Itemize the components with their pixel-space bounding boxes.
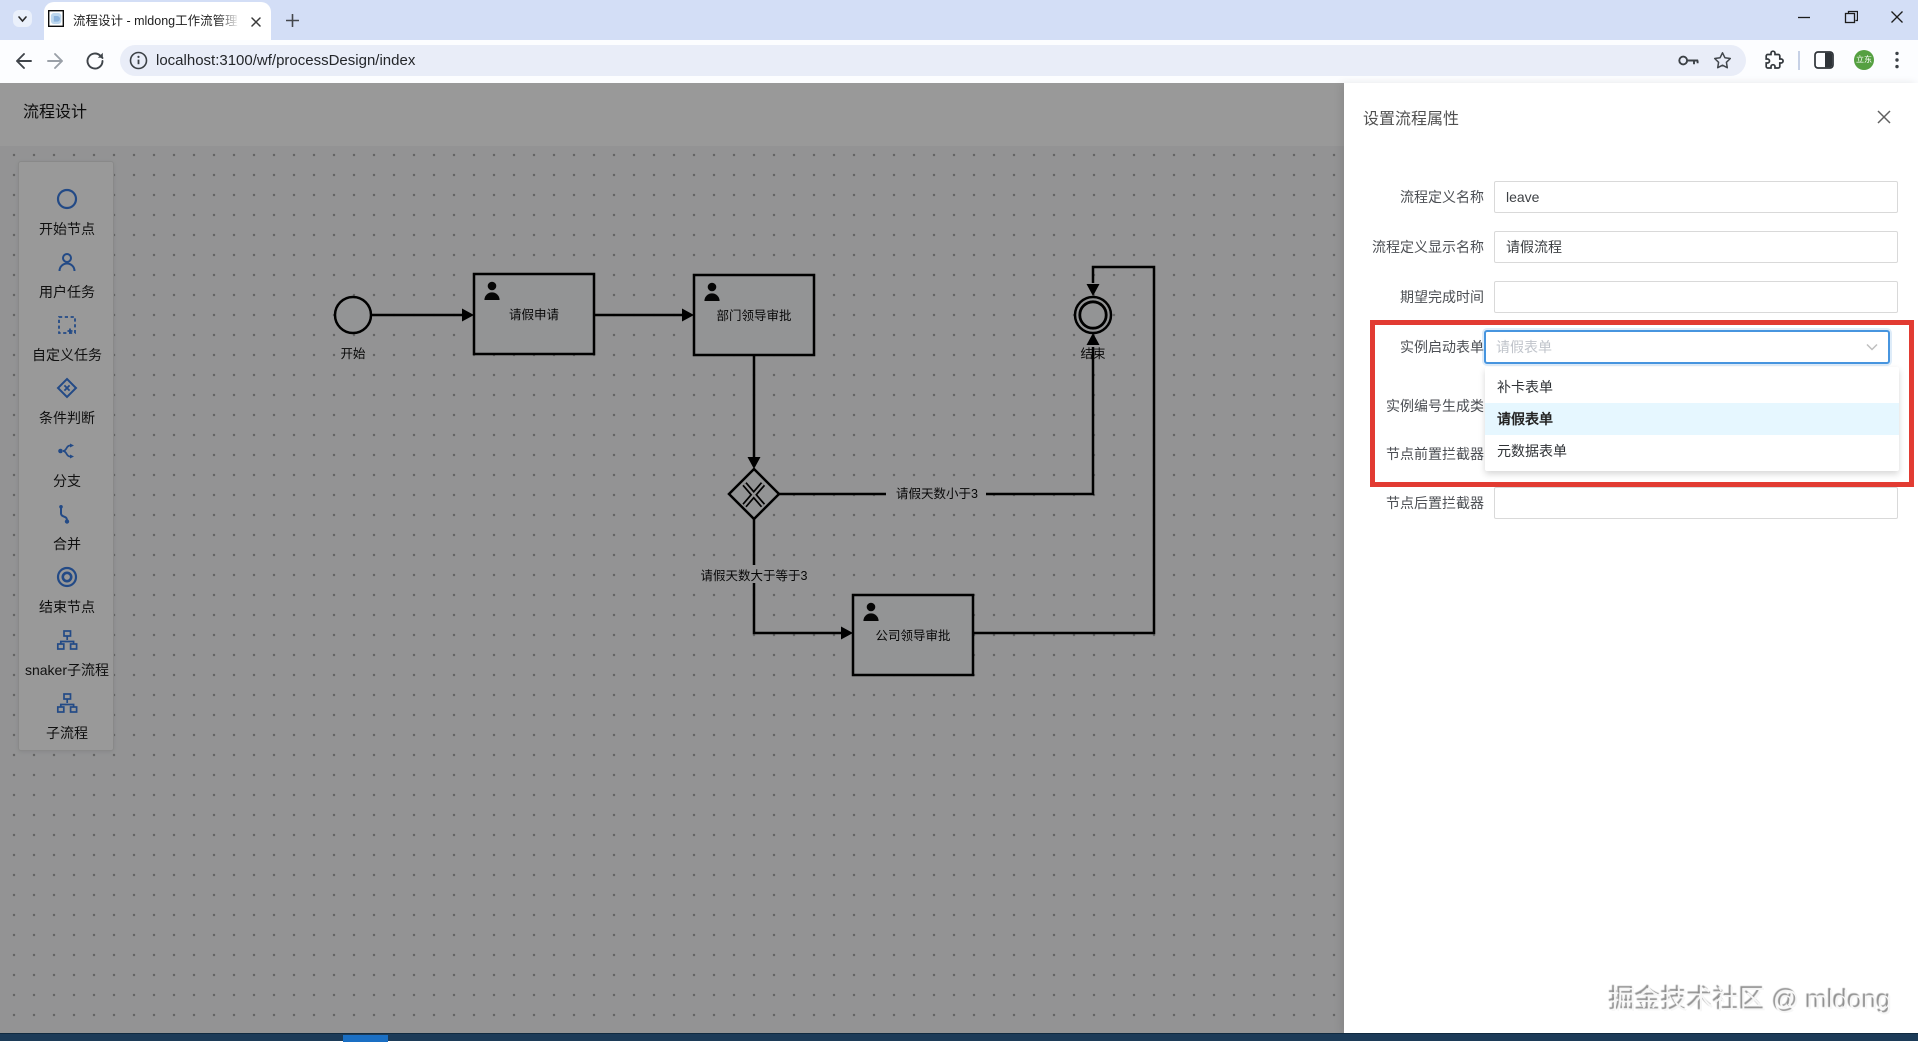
watermark 掘金技术社区 <box>1610 987 1892 1013</box>
wire start->请假申请 <box>371 309 474 322</box>
star icon <box>1713 51 1732 70</box>
omnibox pill <box>120 45 1746 76</box>
side panel icon <box>1814 51 1834 69</box>
task node 公司领导审批 <box>853 595 973 675</box>
palette item 结束节点 <box>19 566 115 630</box>
gateway 条件判断 diamond <box>729 469 779 519</box>
browser tab strip <box>0 0 1918 40</box>
palette item 条件判断 <box>19 377 115 441</box>
node palette <box>18 161 114 751</box>
extensions puzzle <box>1763 50 1784 71</box>
start node 开始 <box>335 297 371 361</box>
form row 实例启动表单 select <box>1344 331 1484 363</box>
palette item 自定义任务 <box>19 314 115 378</box>
active tab <box>44 2 271 40</box>
forward arrow <box>46 50 68 72</box>
right drawer 设置流程属性 <box>1344 83 1918 1033</box>
favicon <box>48 10 64 27</box>
wire 请假申请->部门领导审批 <box>594 309 694 322</box>
page header bar <box>0 83 1344 146</box>
wire 部门领导审批->gateway <box>748 355 761 469</box>
window close <box>1890 10 1904 24</box>
info icon <box>129 51 148 70</box>
avatar <box>1854 50 1874 70</box>
dim overlay mask <box>0 83 1344 1033</box>
window restore <box>1844 10 1858 24</box>
wire 公司领导审批->end <box>973 267 1154 633</box>
new tab plus <box>286 14 299 27</box>
drawer close x <box>1877 110 1891 124</box>
bottom taskbar strip <box>0 1033 1918 1041</box>
select dropdown <box>1485 367 1899 471</box>
palette item 分支 <box>19 440 115 504</box>
wire gateway->公司领导审批 (请假天数大于等于3) <box>754 519 853 640</box>
form row 实例编号生成类 <box>1344 390 1484 422</box>
palette item 合并 <box>19 503 115 567</box>
key icon <box>1677 51 1701 70</box>
separator <box>1798 51 1800 70</box>
tab search chevron <box>13 10 32 27</box>
back arrow <box>11 50 33 72</box>
task node 请假申请 <box>474 274 594 354</box>
end node 结束 <box>1075 297 1111 361</box>
canvas dot grid <box>0 146 1344 1033</box>
form row 节点前置拦截器 <box>1344 438 1484 470</box>
palette item 用户任务 <box>19 251 115 315</box>
edge label 请假天数小于3 <box>886 484 986 502</box>
edge label 请假天数大于等于3 <box>692 565 816 583</box>
task node 部门领导审批 <box>694 275 814 355</box>
window minimize <box>1797 10 1811 24</box>
form row 期望完成时间 <box>1344 281 1484 313</box>
wire gateway->end (请假天数小于3) <box>779 333 1100 494</box>
reload <box>84 50 106 72</box>
form row 流程定义显示名称 <box>1344 231 1484 263</box>
form row 节点后置拦截器 <box>1344 487 1484 519</box>
flowchart svg <box>0 83 1344 1033</box>
browser toolbar <box>0 40 1918 83</box>
palette item snaker子流程 <box>19 629 115 693</box>
kebab menu <box>1892 50 1902 70</box>
app page dimmed area <box>0 83 1344 1033</box>
form row 流程定义名称 <box>1344 181 1484 213</box>
red annotation rectangle <box>1370 320 1914 487</box>
tab close <box>250 16 262 28</box>
palette item 开始节点 <box>19 188 115 252</box>
palette item 子流程 <box>19 692 115 756</box>
